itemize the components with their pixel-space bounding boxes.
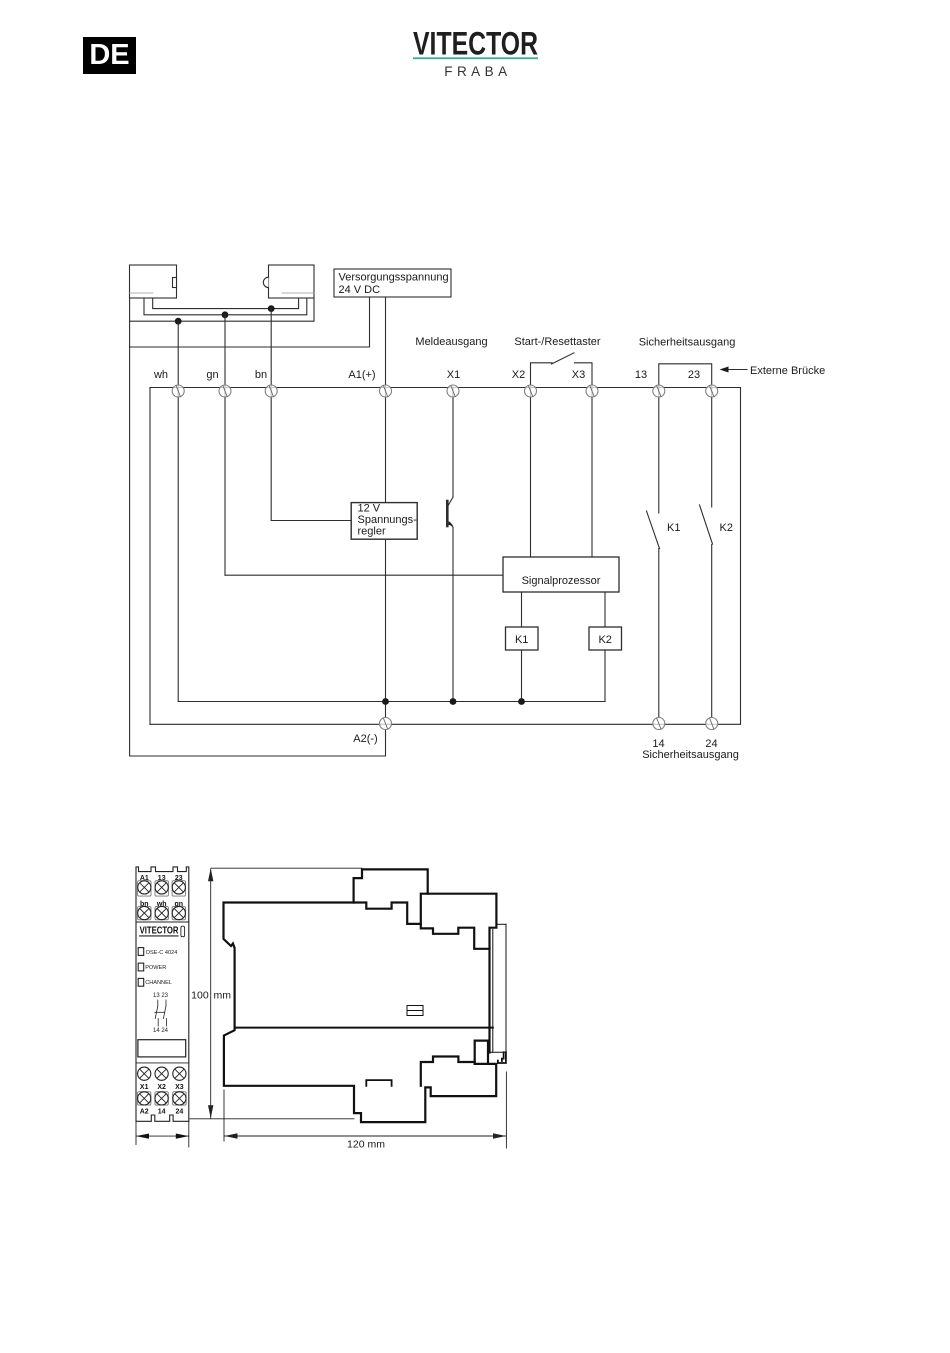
screw terminals row2 bn wh gn: [138, 907, 186, 920]
svg-text:X2: X2: [512, 369, 525, 381]
wire outer loop between sensors: [130, 298, 314, 321]
wire bn vertical: [270, 309, 272, 521]
svg-text:14: 14: [158, 1109, 166, 1116]
svg-text:23: 23: [175, 875, 183, 882]
supply box Versorgungsspannung: [334, 269, 451, 297]
svg-text:K2: K2: [598, 634, 611, 646]
svg-text:120 mm: 120 mm: [347, 1139, 385, 1151]
divider above bottom terminals: [136, 1062, 189, 1064]
wire X3 vertical: [591, 388, 593, 557]
internal channel zigzag bottom: [421, 1057, 475, 1086]
bottom A2 bus line: [150, 723, 741, 725]
junction at A1/A2 wire: [382, 698, 389, 705]
transistor on X1 (meldeausgang output): [447, 497, 453, 527]
side view main body outline: [224, 903, 497, 1123]
terminal wh: [172, 385, 184, 397]
LED OSE-C 4024: [138, 948, 144, 956]
screw terminals row4 A2 14 24: [138, 1092, 186, 1105]
side view top DIN-rail tab 1: [354, 869, 428, 902]
wire contact K1 to terminal 14: [658, 549, 660, 718]
screw terminals row3 X1 X2 X3: [138, 1067, 186, 1080]
svg-text:13 23: 13 23: [153, 993, 169, 999]
terminal bn: [265, 385, 277, 397]
svg-text:regler: regler: [358, 526, 386, 538]
junction bn: [268, 305, 275, 312]
svg-text:Signalprozessor: Signalprozessor: [522, 575, 601, 587]
start/reset switch between X2 and X3: [531, 353, 593, 388]
svg-text:POWER: POWER: [145, 965, 166, 971]
external bridge over terminals 13 and 23: [659, 364, 712, 388]
svg-text:OSE-C 4024: OSE-C 4024: [146, 950, 178, 956]
DE language badge: [83, 37, 136, 74]
junction at X1 wire: [450, 698, 457, 705]
svg-text:A1: A1: [140, 875, 149, 882]
DIN rail strip: [490, 924, 507, 1052]
bottom collector wire: [178, 701, 605, 703]
terminal 14: [653, 718, 665, 730]
svg-text:X3: X3: [572, 369, 585, 381]
svg-text:Meldeausgang: Meldeausgang: [415, 336, 487, 348]
terminal X1: [447, 385, 459, 397]
terminal cavity squares row2: [138, 906, 186, 919]
120 mm dimension: [224, 1072, 506, 1151]
bottom clip raised tab: [475, 1041, 488, 1064]
svg-text:Versorgungsspannung: Versorgungsspannung: [339, 272, 449, 284]
relay contact K2 blade: [700, 505, 713, 544]
svg-text:VITECTOR: VITECTOR: [140, 925, 179, 936]
outer left rail down to bottom: [130, 321, 386, 756]
svg-text:K1: K1: [667, 522, 680, 534]
wire 13 down to contact K1: [658, 388, 660, 513]
svg-text:12 V: 12 V: [358, 503, 381, 515]
terminal A1: [380, 385, 392, 397]
sensor receiver box (top right): [263, 265, 314, 298]
svg-text:X1: X1: [447, 369, 460, 381]
terminal X2: [525, 385, 537, 397]
junction gn: [222, 311, 229, 318]
wire contact K2 to terminal 24: [711, 545, 713, 718]
svg-text:24: 24: [176, 1109, 184, 1116]
junction wh: [175, 318, 182, 325]
terminal cavity squares row1: [138, 881, 186, 896]
wire X1 vertical lower: [452, 527, 454, 702]
svg-text:Externe Brücke: Externe Brücke: [750, 365, 825, 377]
svg-text:Sicherheitsausgang: Sicherheitsausgang: [642, 749, 739, 761]
svg-text:CHANNEL: CHANNEL: [145, 980, 172, 986]
supply box left wire down and to outer left rail: [130, 297, 370, 347]
screw terminals row1 A1 13 23: [138, 881, 186, 894]
wire A1 vertical: [385, 297, 387, 718]
front view outline with top and bottom notches: [136, 867, 189, 1121]
svg-text:K2: K2: [720, 522, 733, 534]
K1 coil box: [506, 627, 539, 650]
externe bruecke arrow: [720, 365, 826, 377]
svg-text:13: 13: [635, 369, 647, 381]
wire wh vertical: [177, 321, 179, 701]
svg-text:14 24: 14 24: [153, 1028, 169, 1034]
terminal 24: [706, 718, 718, 730]
svg-text:24 V DC: 24 V DC: [339, 284, 381, 296]
relay contact K1 blade: [647, 511, 660, 549]
svg-text:mm: mm: [214, 990, 232, 1002]
signal processor box: [503, 557, 619, 592]
svg-text:wh: wh: [153, 369, 168, 381]
terminal 13: [653, 385, 665, 397]
svg-text:A1(+): A1(+): [348, 369, 375, 381]
svg-text:gn: gn: [175, 901, 184, 908]
terminal 23: [706, 385, 718, 397]
junction at K1 wire: [518, 698, 525, 705]
divider under terminals: [136, 921, 189, 923]
terminal A2: [380, 718, 392, 730]
terminal gn: [219, 385, 231, 397]
svg-text:X2: X2: [157, 1084, 166, 1091]
VITECTOR mini logo: [140, 925, 185, 936]
schematic labels: [153, 336, 739, 761]
wire 23 down to contact K2: [711, 388, 713, 507]
svg-text:A2: A2: [140, 1109, 149, 1116]
svg-text:Spannungs-: Spannungs-: [358, 514, 418, 526]
svg-text:Start-/Resettaster: Start-/Resettaster: [514, 336, 601, 348]
notch above bottom tab 1: [366, 1080, 391, 1086]
svg-text:100: 100: [191, 990, 209, 1002]
svg-text:X1: X1: [140, 1084, 149, 1091]
right rail: [740, 388, 742, 724]
wire inner loop between sensors: [153, 298, 299, 309]
svg-text:13: 13: [158, 875, 166, 882]
wire K1 coil down: [521, 650, 523, 702]
svg-text:K1: K1: [515, 634, 528, 646]
internal seam line: [235, 1027, 493, 1029]
LED POWER: [138, 963, 144, 971]
side view top tab 2: [421, 894, 497, 949]
wire X1 vertical upper: [452, 388, 454, 497]
svg-text:gn: gn: [206, 369, 218, 381]
svg-text:A2(-): A2(-): [353, 733, 377, 745]
top bus line: [150, 387, 741, 389]
12V regulator box: [351, 503, 417, 540]
svg-text:X3: X3: [175, 1084, 184, 1091]
svg-text:bn: bn: [255, 369, 267, 381]
DIN rail hook bottom right: [498, 1052, 506, 1063]
DIN clip window: [138, 1040, 186, 1057]
100 mm dimension: [190, 868, 362, 1119]
svg-text:wh: wh: [156, 901, 167, 908]
terminal cavity squares row4: [138, 1092, 187, 1105]
svg-text:23: 23: [688, 369, 700, 381]
sensor transmitter box (top left): [130, 265, 177, 298]
front width dimension: [136, 1121, 189, 1147]
wire gn vertical: [224, 315, 226, 575]
front terminal labels top: [140, 875, 183, 908]
terminal X3: [586, 385, 598, 397]
wire processor to K1 coil: [521, 592, 523, 627]
svg-text:bn: bn: [140, 901, 149, 908]
VITECTOR FRABA logo: [400, 20, 560, 90]
latch rectangle: [407, 1006, 423, 1016]
wire gn to signal processor: [225, 574, 503, 576]
front terminal labels bottom: [140, 1084, 184, 1116]
wire bn to regulator: [271, 520, 351, 522]
K2 coil box: [589, 627, 622, 650]
wire processor to K2 coil: [604, 592, 606, 627]
svg-text:Sicherheitsausgang: Sicherheitsausgang: [639, 337, 736, 349]
left rail of inner rectangle: [149, 388, 151, 725]
wire middle loop between sensors: [144, 298, 307, 315]
mini contact diagram: [155, 1000, 167, 1026]
LED CHANNEL: [138, 978, 144, 986]
wire K2 coil down: [604, 650, 606, 702]
wire X2 vertical: [530, 388, 532, 557]
